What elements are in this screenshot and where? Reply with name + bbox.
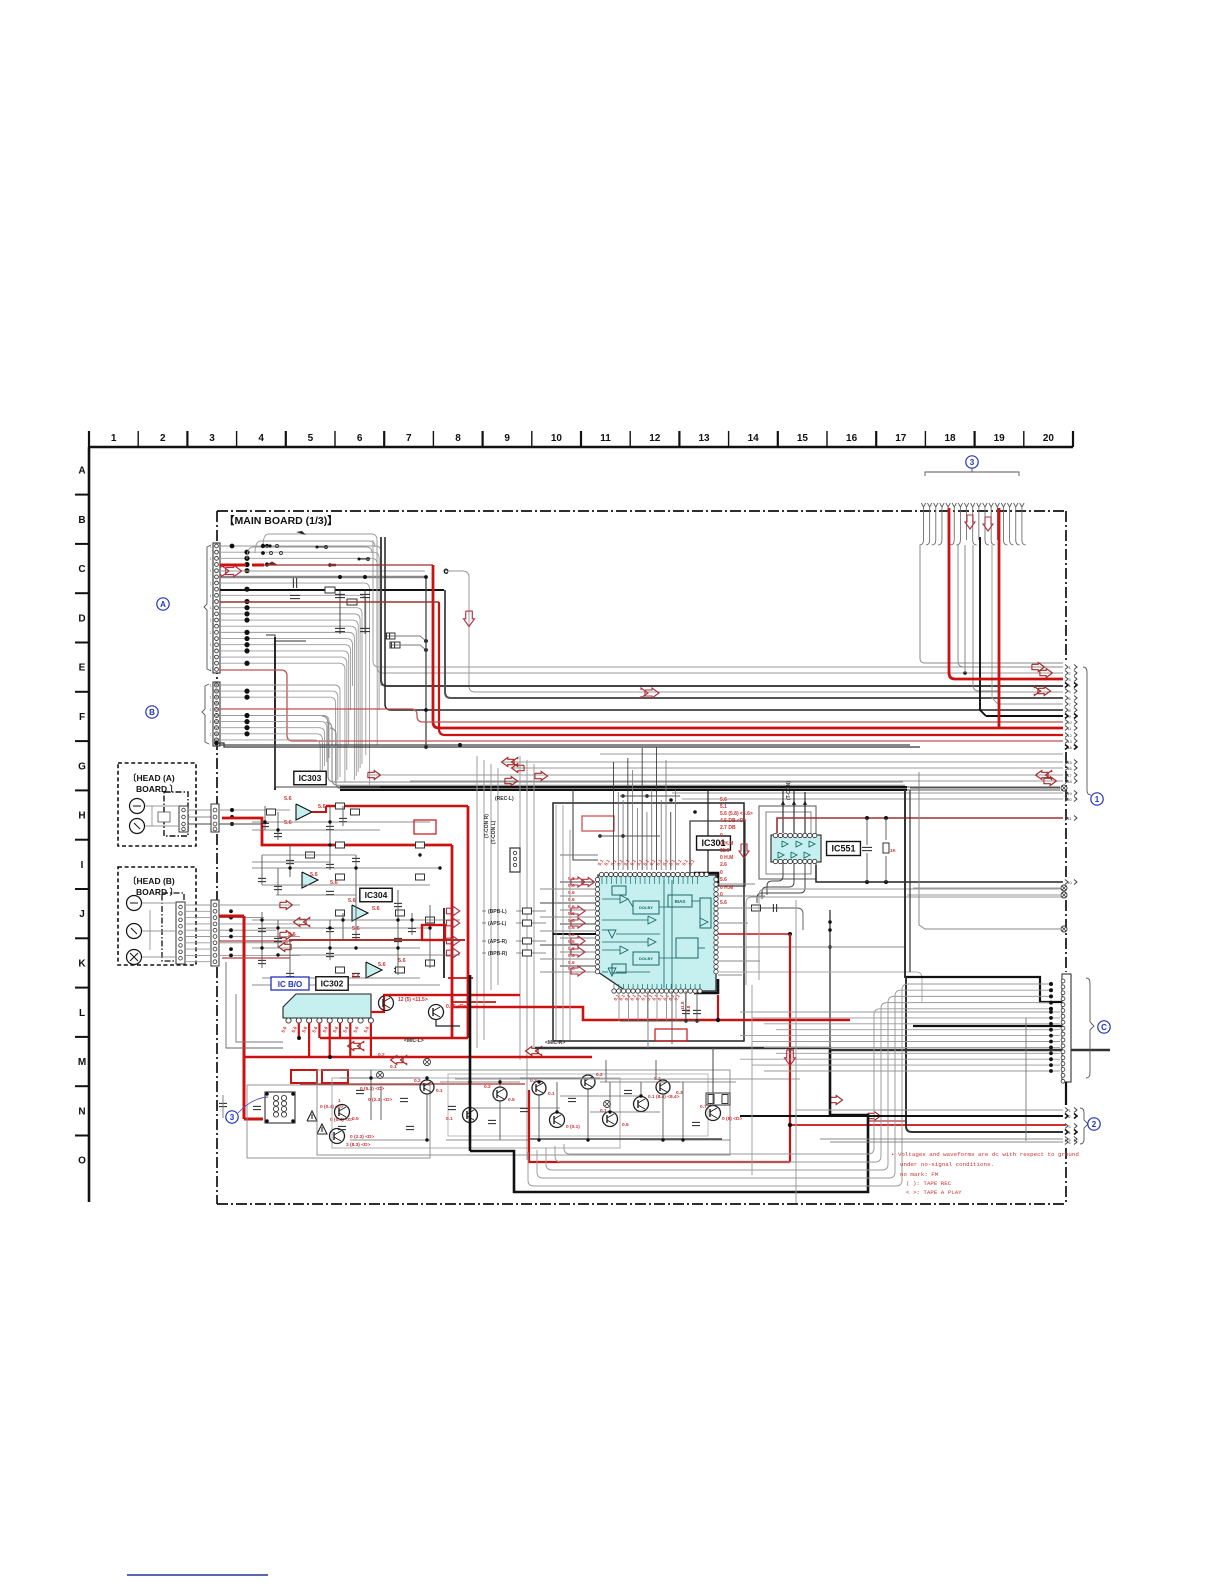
svg-text:0 H.M: 0 H.M	[720, 841, 733, 847]
resistor branch x886	[885, 818, 887, 840]
svg-text:0.8: 0.8	[686, 1005, 691, 1012]
grey box power section left	[247, 1085, 430, 1158]
svg-text:5.6: 5.6	[284, 820, 292, 826]
grey wires to right edge circles	[913, 887, 1061, 889]
svg-text:0 (0.1): 0 (0.1)	[566, 1124, 580, 1130]
svg-text:1: 1	[111, 433, 117, 444]
right edge circle terminals	[1061, 785, 1067, 791]
svg-text:D: D	[78, 613, 85, 624]
wire row black 590 to x444	[220, 589, 444, 591]
svg-text:6: 6	[1068, 696, 1071, 701]
IC301 top-right thick corner	[694, 873, 718, 886]
svg-text:2: 2	[1068, 671, 1071, 676]
svg-text:1: 1	[210, 606, 212, 610]
svg-text:DOLBY: DOLBY	[639, 956, 653, 961]
svg-text:M: M	[78, 1057, 86, 1068]
red vertical x718	[717, 995, 719, 1020]
bracket A	[204, 545, 211, 671]
svg-text:5.6: 5.6	[288, 932, 296, 938]
svg-text:• Voltages and waveforms are d: • Voltages and waveforms are dc with res…	[891, 1151, 1079, 1158]
connector C body	[1062, 974, 1071, 1082]
svg-text:J: J	[79, 909, 85, 920]
grey bundle curve down x330 to y784 right	[322, 716, 903, 782]
svg-text:5.6: 5.6	[352, 974, 360, 980]
vertical dark x445 bend to y698	[445, 590, 1063, 698]
head A erase head symbol	[130, 799, 145, 814]
svg-text:2: 2	[1092, 1120, 1097, 1129]
IC302 left frame wires	[226, 994, 283, 1048]
IC301 left pin stubs and arrows	[560, 881, 595, 883]
bus wire row 704 from bundle3	[992, 545, 998, 704]
svg-text:5.6: 5.6	[348, 898, 356, 904]
svg-text:5.6: 5.6	[318, 804, 326, 810]
svg-text:16: 16	[1067, 766, 1072, 771]
IC301 pins top row	[599, 872, 603, 876]
vertical grey x426 to y747	[425, 577, 427, 747]
svg-text:C: C	[1101, 1023, 1107, 1032]
svg-text:5: 5	[308, 433, 314, 444]
head B board signal rows	[219, 904, 300, 906]
big box around IC301 section	[553, 803, 744, 1041]
svg-text:0 H.M: 0 H.M	[720, 855, 733, 861]
svg-text:5.6: 5.6	[568, 946, 575, 952]
head B shield dash-dot lines	[162, 893, 184, 961]
IC302 label	[316, 977, 348, 991]
svg-text:IC302: IC302	[321, 979, 344, 989]
svg-text:0: 0	[720, 833, 723, 839]
head A wires	[145, 805, 179, 807]
connector 2 wires	[796, 1109, 1063, 1111]
IC551 inner box	[766, 812, 811, 874]
bundle 3 red wire to 728	[998, 508, 1001, 727]
wire top of IC303 section	[219, 744, 910, 746]
grey verticals center-bottom	[795, 900, 797, 1203]
svg-text:12: 12	[1067, 733, 1072, 738]
svg-text:15: 15	[1067, 760, 1072, 765]
IC304 label	[360, 888, 392, 902]
op-amp U303a	[296, 804, 312, 820]
thick black net bottom right	[535, 1048, 1110, 1050]
ruler column ticks and numbers	[88, 431, 90, 447]
svg-text:0.1: 0.1	[390, 1064, 397, 1070]
svg-text:0.2: 0.2	[596, 1072, 603, 1078]
connector 3 bracket	[925, 472, 1019, 476]
svg-text:4: 4	[1068, 1130, 1071, 1135]
transistor Q302	[429, 1005, 444, 1020]
black vertical x830 upper	[829, 910, 831, 1050]
transistor Q305	[420, 1080, 434, 1094]
svg-text:(APS-L): (APS-L)	[488, 921, 507, 927]
red wire 806 x468 down long	[326, 805, 468, 807]
svg-text:H: H	[78, 811, 85, 822]
IC551 label	[827, 842, 861, 856]
connector CN-A pins	[215, 544, 219, 548]
transistor Q312	[634, 1097, 649, 1112]
svg-text:5.6: 5.6	[332, 1025, 339, 1033]
black wire Q302 down	[436, 1020, 460, 1026]
svg-text:14: 14	[1067, 745, 1072, 750]
svg-text:IC551: IC551	[831, 844, 855, 854]
svg-text:5.6: 5.6	[330, 880, 338, 886]
svg-text:0.2: 0.2	[484, 1084, 491, 1090]
bundle 3 red down arrows	[965, 515, 975, 529]
op-amp U303b	[302, 872, 318, 888]
bundle 3 red wire to 679	[949, 508, 1063, 679]
bracket C	[1086, 978, 1094, 1078]
svg-text:0.5: 0.5	[622, 1122, 629, 1128]
svg-text:12: 12	[649, 433, 661, 444]
svg-text:0.1: 0.1	[446, 1116, 453, 1122]
svg-text:2: 2	[160, 433, 166, 444]
svg-text:L: L	[79, 1008, 85, 1019]
node label B circled	[146, 706, 158, 718]
junction dots on connector A rows	[244, 550, 249, 555]
svg-text:0.7: 0.7	[700, 1104, 707, 1110]
svg-text:1: 1	[210, 656, 212, 660]
junction dots head amp field	[263, 820, 266, 823]
svg-text:0.1: 0.1	[548, 1091, 555, 1097]
svg-text:2.6: 2.6	[720, 862, 727, 868]
svg-text:1: 1	[210, 696, 212, 700]
svg-text:3: 3	[230, 1113, 235, 1122]
vertical bus x381 to row 686 dark	[381, 537, 1063, 686]
warning triangle 2	[317, 1124, 327, 1134]
connector CN1 bracket	[1083, 667, 1091, 795]
svg-text:1: 1	[338, 1098, 341, 1104]
head B erase head symbol	[127, 896, 142, 911]
red label box under IC301	[655, 1029, 687, 1041]
svg-text:5.6: 5.6	[568, 966, 575, 972]
bundle 3 black wire	[980, 537, 986, 716]
svg-text:1: 1	[1068, 1108, 1071, 1113]
svg-text:1: 1	[210, 569, 212, 573]
bundle 3 continuing verticals	[919, 545, 921, 658]
IC302 pins	[286, 1018, 291, 1023]
svg-text:5.6: 5.6	[398, 958, 406, 964]
head amp vertical link lines	[264, 806, 266, 830]
red branch to connector 2	[790, 1124, 1066, 1126]
svg-text:2: 2	[1068, 1114, 1071, 1119]
transistor Q310	[581, 1075, 595, 1089]
svg-text:5.6: 5.6	[291, 1025, 298, 1033]
svg-text:1: 1	[1068, 665, 1071, 670]
svg-text:IC303: IC303	[299, 773, 322, 783]
label C wire bend down x469	[444, 569, 448, 573]
black net 882 from IC551	[816, 865, 1063, 882]
red label box above IC301	[582, 816, 614, 831]
red wire row 565 thick segment	[220, 564, 246, 567]
svg-text:18: 18	[944, 433, 956, 444]
IC B/O label blue	[271, 977, 309, 990]
svg-text:(BPB-R): (BPB-R)	[488, 951, 507, 957]
bottom field caps	[356, 1089, 364, 1091]
long grey transistor bus 1079	[455, 1078, 800, 1080]
main board dash-dot outline	[217, 510, 1066, 512]
black thick wire into left pins y934	[553, 933, 596, 935]
svg-text:0: 0	[720, 870, 723, 876]
svg-text:<MIC-L>: <MIC-L>	[404, 1038, 424, 1044]
grey wire bend to terminal 929	[919, 772, 1061, 929]
svg-text:15: 15	[797, 433, 809, 444]
capacitor branch x867	[866, 818, 868, 845]
svg-text:0.1 (8.4) <8.4>: 0.1 (8.4) <8.4>	[648, 1094, 680, 1100]
head B play head symbol	[127, 950, 142, 965]
svg-text:11.6: 11.6	[720, 848, 730, 854]
svg-text:5.6: 5.6	[280, 1025, 287, 1033]
thick black connector C feed	[906, 977, 1062, 1002]
svg-text:5.6: 5.6	[568, 925, 575, 931]
node label A circled	[157, 598, 169, 610]
svg-text:10: 10	[551, 433, 563, 444]
red wire op-amp A out	[312, 806, 326, 812]
svg-text:3: 3	[1068, 1124, 1071, 1129]
wire rows from connector B	[220, 684, 335, 686]
node label C circled	[1098, 1021, 1110, 1033]
footer blue line	[127, 1574, 268, 1576]
head B connector	[176, 902, 185, 964]
feed bundle junction dots	[621, 794, 625, 798]
svg-text:11: 11	[1067, 816, 1072, 821]
node label 3 circled bottom	[226, 1111, 238, 1123]
connector CN1 red arrows	[1032, 663, 1045, 672]
vertical thin x1026 bottom	[1025, 1018, 1027, 1141]
black wire connector B bottom	[219, 743, 920, 747]
svg-text:10: 10	[1067, 720, 1072, 725]
caps left of transformer	[219, 1102, 227, 1104]
svg-text:5.6: 5.6	[568, 883, 575, 889]
IC302 package body	[283, 994, 371, 1018]
svg-text:0.5: 0.5	[352, 1116, 359, 1122]
svg-text:2.7 DB: 2.7 DB	[720, 825, 736, 831]
svg-text:E: E	[79, 663, 86, 674]
svg-text:4.5 DB <D>: 4.5 DB <D>	[720, 818, 746, 824]
vertical bus x385 to row 710 black	[385, 537, 1063, 710]
svg-text:20: 20	[1067, 797, 1072, 802]
transistor Q306	[463, 1108, 478, 1123]
op-amp U304b	[366, 962, 382, 978]
svg-text:1: 1	[210, 594, 212, 598]
top bundle small components	[296, 531, 306, 535]
transistor Q307	[493, 1087, 507, 1101]
IC551 pins	[773, 833, 777, 837]
svg-text:A: A	[160, 600, 166, 609]
svg-text:0 (8) <D>: 0 (8) <D>	[722, 1116, 742, 1122]
svg-text:( ): TAPE REC: ( ): TAPE REC	[906, 1180, 952, 1187]
svg-text:0.2: 0.2	[414, 1078, 421, 1084]
IC301 bottom-right thick corner	[694, 979, 718, 993]
warning triangle 1	[307, 1111, 317, 1121]
head amp discrete components	[261, 822, 269, 824]
IC301 pins right column	[714, 877, 718, 881]
svg-text:11: 11	[600, 433, 611, 444]
svg-text:< >: TAPE A PLAY: < >: TAPE A PLAY	[906, 1189, 962, 1196]
svg-text:17: 17	[1067, 773, 1072, 778]
svg-text:12 (5) <11.5>: 12 (5) <11.5>	[398, 997, 428, 1003]
svg-text:1: 1	[210, 557, 212, 561]
black vertical x708	[707, 790, 709, 930]
grey long wires 896 902	[759, 889, 765, 980]
svg-text:8: 8	[455, 433, 461, 444]
transistor Q301	[379, 996, 394, 1011]
svg-text:6: 6	[1068, 1140, 1071, 1145]
wire rows from connector A	[220, 545, 376, 547]
svg-text:1: 1	[210, 643, 212, 647]
svg-text:3: 3	[1068, 677, 1071, 682]
svg-text:9: 9	[1068, 714, 1071, 719]
svg-text:(APS-R): (APS-R)	[488, 939, 507, 945]
bottom field wiring verticals	[370, 1070, 372, 1120]
red wire 845 horizontal	[222, 818, 452, 845]
svg-text:0.2: 0.2	[378, 1052, 385, 1058]
IC301 right side horizontal wires	[718, 895, 765, 897]
head B board dashed box	[118, 867, 196, 965]
svg-text:(BPB-L): (BPB-L)	[488, 909, 507, 915]
svg-text:13: 13	[1067, 739, 1072, 744]
svg-text:5.6: 5.6	[301, 1025, 308, 1033]
svg-text:5.6: 5.6	[568, 953, 575, 959]
svg-text:〔HEAD (B): 〔HEAD (B)	[128, 876, 175, 886]
head B red wire thick down x244	[219, 915, 244, 918]
svg-text:5.6: 5.6	[568, 960, 575, 966]
svg-text:no mark: FM: no mark: FM	[900, 1171, 939, 1178]
head A shield dash-dot box	[164, 792, 188, 836]
grey bundle dots at connector C	[1049, 982, 1053, 986]
IC551 outer box	[759, 806, 816, 879]
wire row 571 grey	[220, 570, 425, 572]
red bus 1007 to 1020 jog	[452, 1007, 850, 1020]
transistor Q309	[550, 1113, 565, 1128]
IC551 bottom tails	[767, 863, 783, 895]
node label 2 circled	[1088, 1118, 1100, 1130]
ruler row ticks and letters	[75, 494, 89, 496]
svg-text:0 (2.3) <D>: 0 (2.3) <D>	[350, 1134, 374, 1140]
IC301 inner logic details	[620, 895, 628, 903]
top wire bundle arcs	[263, 534, 377, 546]
transformer T301	[265, 1092, 295, 1123]
svg-text:0.1: 0.1	[436, 1088, 443, 1094]
svg-text:DOLBY: DOLBY	[639, 905, 653, 910]
red vertical x790 long	[789, 934, 791, 1162]
svg-text:1: 1	[210, 619, 212, 623]
svg-text:5.6: 5.6	[568, 932, 575, 938]
red wire row 709 to x417 jog to 722	[220, 709, 1063, 722]
head A rec/play head symbol	[130, 819, 145, 834]
svg-text:I: I	[81, 860, 84, 871]
resistor pair box	[706, 1093, 730, 1105]
svg-text:4: 4	[1068, 683, 1071, 688]
red wire row 670 to x287 down y741 right	[220, 670, 1063, 741]
IC551 inner inverter triangles	[782, 841, 788, 847]
svg-text:(REC-L): (REC-L)	[495, 796, 514, 802]
bottom field junction dots	[369, 1076, 372, 1079]
red arrow feed	[739, 844, 749, 858]
IC301 bottom pin tail wires	[618, 993, 620, 1021]
capacitors in row field	[292, 578, 294, 588]
terminal group G red arrows	[502, 758, 515, 767]
node label 1 circled	[1091, 793, 1103, 805]
svg-text:1: 1	[210, 720, 212, 724]
svg-text:5.6: 5.6	[342, 1025, 349, 1033]
IC301 pins bottom row	[612, 989, 616, 993]
svg-text:8: 8	[1068, 708, 1071, 713]
node label 3 circled top	[966, 456, 978, 468]
bracket 2	[1080, 1108, 1088, 1144]
svg-text:3: 3	[209, 433, 215, 444]
head B wires	[142, 902, 176, 904]
caps under IC301	[682, 1009, 690, 1011]
red arrow row 565	[266, 562, 278, 566]
transistor Q304	[330, 1129, 345, 1144]
svg-text:G: G	[78, 761, 86, 772]
red stub 978	[448, 977, 473, 979]
dark emitter bus 1139	[530, 1138, 722, 1140]
svg-text:5.6: 5.6	[568, 918, 575, 924]
head A connector	[179, 806, 188, 832]
svg-text:1: 1	[210, 631, 212, 635]
transistor Q303	[335, 1105, 350, 1120]
svg-text:1K: 1K	[890, 848, 897, 853]
red wire 995 right segment	[384, 994, 520, 996]
IC551 top feed wires	[782, 790, 784, 833]
IC301 inner wires	[602, 898, 620, 900]
svg-text:under no-signal conditions.: under no-signal conditions.	[900, 1161, 994, 1168]
resistor symbols in row field	[325, 587, 335, 593]
bottom field enclosure grey	[317, 1070, 730, 1155]
svg-text:A: A	[78, 466, 85, 477]
svg-text:B: B	[78, 515, 85, 526]
horiz links above IC301	[598, 835, 660, 837]
svg-text:K: K	[78, 959, 86, 970]
connector 2 terminals	[1065, 1108, 1068, 1113]
bottom field inner box	[332, 1078, 620, 1148]
svg-text:5.6: 5.6	[311, 1025, 318, 1033]
svg-text:9: 9	[504, 433, 510, 444]
svg-text:(T-CON L): (T-CON L)	[491, 820, 497, 844]
red arrow on row 571	[226, 565, 242, 577]
op-amp U304a	[352, 905, 368, 921]
bottom field wiring horizontals	[340, 1077, 420, 1079]
svg-text:16: 16	[846, 433, 858, 444]
svg-text:5.6 (5.8) <5.6>: 5.6 (5.8) <5.6>	[720, 811, 753, 817]
red wire row 565 thin continue	[264, 564, 433, 566]
svg-text:0.85 <D>: 0.85 <D>	[446, 1004, 467, 1010]
red bus 1057	[245, 1056, 592, 1059]
vertical grey bus x377 to row 673	[377, 540, 1063, 673]
svg-text:1: 1	[210, 582, 212, 586]
bundle 3 vertical wires	[921, 503, 925, 507]
bottom field inner box 2	[448, 1074, 708, 1136]
IC301 pins left column	[595, 877, 599, 881]
svg-text:〔HEAD (A): 〔HEAD (A)	[128, 773, 175, 783]
svg-text:5.6: 5.6	[568, 876, 575, 882]
svg-text:17: 17	[895, 433, 907, 444]
IC301 label	[697, 836, 731, 850]
svg-text:BOARD 〕: BOARD 〕	[136, 784, 178, 794]
two red boxes	[291, 1070, 317, 1083]
svg-text:5.6: 5.6	[568, 904, 575, 910]
svg-text:11: 11	[1067, 726, 1072, 731]
transistor Q308	[532, 1081, 546, 1095]
svg-text:20: 20	[1043, 433, 1055, 444]
bundle 3 gather arcs	[920, 540, 924, 545]
terminal 10 right	[1065, 880, 1068, 885]
svg-text:F: F	[79, 712, 85, 723]
connector CN1 terminals	[1065, 665, 1068, 670]
svg-text:13: 13	[698, 433, 710, 444]
svg-text:5.6: 5.6	[568, 890, 575, 896]
terminal 11 right	[1065, 816, 1068, 821]
svg-text:5.6: 5.6	[310, 872, 318, 878]
